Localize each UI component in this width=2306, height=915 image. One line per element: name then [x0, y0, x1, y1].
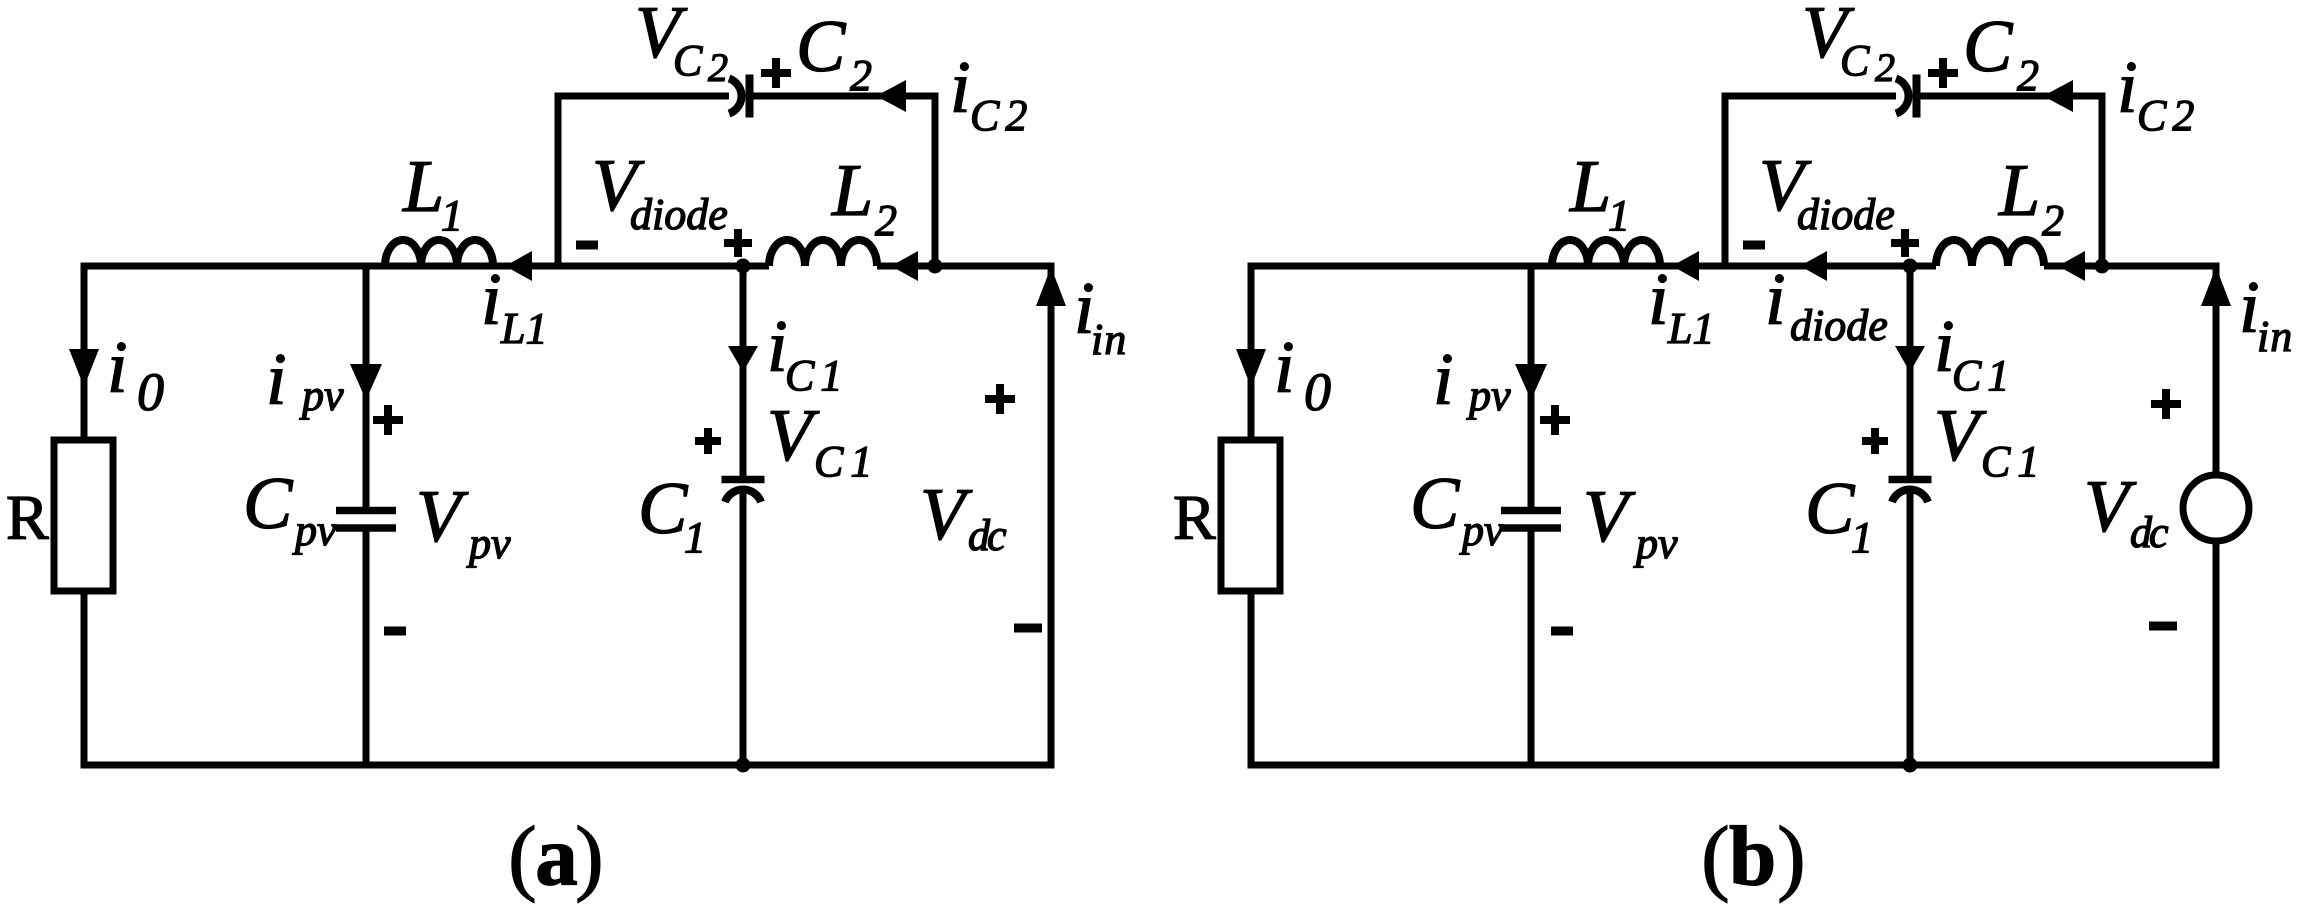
- svg-text:1: 1: [684, 513, 706, 562]
- svg-text:): ): [575, 810, 603, 904]
- arrow i_0 (a): [69, 349, 99, 387]
- svg-text:C: C: [1840, 36, 1870, 85]
- svg-text:C: C: [638, 468, 689, 550]
- svg-text:diode: diode: [1790, 301, 1888, 350]
- svg-text:V: V: [767, 395, 820, 477]
- wire: top-loop left vertical (a): [555, 96, 562, 266]
- svg-text:1: 1: [1608, 191, 1630, 240]
- arrow i_L1 (a): [505, 251, 532, 281]
- junction dot at C1 bottom node (a): [736, 758, 751, 773]
- svg-text:(: (: [508, 810, 536, 904]
- svg-text:dc: dc: [2130, 508, 2169, 557]
- arrow i_C2 (a): [876, 80, 906, 112]
- label plusDiode.b: [1891, 229, 1919, 257]
- junction dot at C1 top node (b): [1903, 259, 1918, 274]
- capacitor C2 straight plate (b): [1913, 75, 1921, 118]
- svg-text:0: 0: [137, 362, 164, 422]
- label plusDc.a: [985, 384, 1015, 414]
- arrow i_in (a): [1036, 267, 1066, 306]
- label plusC1.b: [1862, 428, 1888, 454]
- wire: C1 vertical lower (a): [740, 490, 747, 765]
- svg-text:pv: pv: [1466, 371, 1511, 420]
- svg-text:2: 2: [1875, 45, 1895, 90]
- capacitor Cpv top plate (a): [336, 507, 396, 515]
- arrow i_C1 (b): [1895, 346, 1925, 372]
- svg-text:L: L: [1569, 146, 1611, 228]
- arrow i_pv (a): [350, 364, 382, 400]
- svg-text:2: 2: [875, 196, 897, 245]
- label minusPv.a: [384, 627, 406, 636]
- wire: top wire right segment from C2 (b): [1921, 93, 2106, 100]
- wire: main horizontal middle segment (a): [385, 263, 769, 270]
- wire: Cpv vertical lower (a): [363, 532, 370, 766]
- svg-text:1: 1: [441, 191, 463, 240]
- wire: Cpv vertical upper (b): [1528, 266, 1535, 507]
- label plusC2.b: [1928, 58, 1958, 88]
- wire: left vertical upper (b): [1248, 263, 1255, 444]
- svg-text:pv: pv: [299, 371, 344, 420]
- svg-text:C: C: [673, 36, 703, 85]
- voltage source Vdc circle (b): [2183, 475, 2249, 541]
- arrow into L2 (a): [891, 251, 918, 281]
- arrow i_pv (b): [1515, 364, 1547, 400]
- label plusDiode.a: [724, 229, 752, 257]
- arrow into L2 (b): [2058, 251, 2085, 281]
- svg-text:b: b: [1729, 810, 1776, 904]
- wire: top wire right segment from C2 (a): [754, 93, 939, 100]
- wire: main horizontal right segment (b): [2044, 263, 2220, 270]
- inductor L1 (b): [1552, 240, 1660, 266]
- svg-text:pv: pv: [292, 506, 337, 555]
- svg-text:i: i: [107, 327, 128, 409]
- svg-text:C2: C2: [970, 91, 1033, 140]
- svg-text:2: 2: [708, 45, 728, 90]
- svg-text:C1: C1: [1981, 437, 2046, 486]
- wire: right vertical (a): [1048, 266, 1055, 769]
- wire: left vertical lower (b): [1248, 591, 1255, 769]
- label minusDc.a: [1014, 624, 1042, 633]
- label minusDiode.b: [1743, 241, 1765, 250]
- inductor L2 (a): [769, 240, 877, 266]
- wire: main horizontal right segment (a): [877, 263, 1055, 270]
- svg-text:i: i: [950, 47, 971, 129]
- svg-text:diode: diode: [1797, 190, 1895, 239]
- svg-text:R: R: [1173, 482, 1216, 553]
- label plusPv.b: [1540, 405, 1570, 435]
- svg-text:L: L: [1998, 150, 2040, 232]
- wire: Cpv vertical upper (a): [363, 266, 370, 507]
- wire: bottom horizontal (a): [81, 762, 1055, 769]
- capacitor C2 curved plate (b): [1896, 79, 1909, 114]
- wire: top wire left segment to C2 (b): [1722, 93, 1897, 100]
- svg-text:L: L: [402, 146, 444, 228]
- svg-text:diode: diode: [630, 190, 728, 239]
- label plusPv.a: [373, 405, 403, 435]
- junction dot at C1 top node (a): [736, 259, 751, 274]
- inductor L1 (a): [385, 240, 493, 266]
- junction dot at L2 right node (b): [2095, 259, 2110, 274]
- svg-text:i: i: [1274, 327, 1295, 409]
- label minusDc.b: [2149, 622, 2177, 631]
- svg-text:C2: C2: [2137, 91, 2200, 140]
- label plusC1.a: [695, 428, 721, 454]
- wire: top-loop right vertical (b): [2099, 96, 2106, 266]
- arrow i_diode (b): [1800, 251, 1827, 281]
- svg-text:C1: C1: [814, 437, 879, 486]
- junction dot at C1 bottom node (b): [1903, 758, 1918, 773]
- svg-text:C: C: [1963, 6, 2014, 88]
- svg-text:i: i: [1648, 259, 1669, 341]
- svg-text:C: C: [1410, 463, 1461, 545]
- label minusDiode.a: [576, 241, 598, 250]
- wire: top wire left segment to C2 (a): [555, 93, 730, 100]
- wire: right vertical lower (b): [2213, 541, 2220, 769]
- svg-text:in: in: [1091, 315, 1127, 364]
- wire: left vertical lower (a): [81, 591, 88, 769]
- svg-text:C1: C1: [785, 351, 848, 400]
- svg-text:C: C: [796, 6, 847, 88]
- label plusDc.b: [2151, 389, 2181, 419]
- wire: Cpv vertical lower (b): [1528, 532, 1535, 766]
- inductor L2 (b): [1936, 240, 2044, 266]
- wire: C1 vertical upper (b): [1907, 266, 1914, 476]
- svg-text:V: V: [416, 476, 469, 558]
- resistor R (b): [1221, 440, 1280, 591]
- svg-text:0: 0: [1304, 362, 1331, 422]
- svg-text:C: C: [243, 463, 294, 545]
- svg-text:pv: pv: [1459, 506, 1504, 555]
- arrow i_in (b): [2201, 267, 2231, 306]
- svg-text:pv: pv: [466, 519, 511, 568]
- svg-text:): ): [1777, 810, 1805, 904]
- svg-text:V: V: [1583, 476, 1636, 558]
- wire: C1 vertical upper (a): [740, 266, 747, 476]
- svg-text:L1: L1: [500, 304, 547, 353]
- svg-text:in: in: [2257, 312, 2293, 361]
- wire: bottom horizontal (b): [1248, 762, 2220, 769]
- svg-text:pv: pv: [1633, 519, 1678, 568]
- svg-text:i: i: [2117, 47, 2138, 129]
- capacitor Cpv top plate (b): [1501, 507, 1561, 515]
- wire: right vertical upper (b): [2213, 266, 2220, 475]
- wire: main horizontal left segment (b): [1248, 263, 1553, 270]
- svg-text:i: i: [1433, 339, 1454, 421]
- svg-text:i: i: [266, 339, 287, 421]
- svg-text:i: i: [481, 259, 502, 341]
- wire: main horizontal middle segment (b): [1552, 263, 1936, 270]
- svg-text:2: 2: [850, 51, 872, 100]
- svg-text:V: V: [1934, 395, 1987, 477]
- wire: top-loop right vertical (a): [932, 96, 939, 266]
- arrow i_C2 (b): [2043, 80, 2073, 112]
- wire: top-loop left vertical (b): [1722, 96, 1729, 266]
- capacitor C1 curved plate (a): [725, 489, 761, 502]
- capacitor C1 curved plate (b): [1892, 489, 1928, 502]
- svg-text:a: a: [535, 810, 578, 904]
- junction dot at L2 right node (a): [928, 259, 943, 274]
- svg-text:1: 1: [1851, 513, 1873, 562]
- capacitor C1 straight plate (a): [722, 476, 765, 484]
- svg-text:L: L: [831, 150, 873, 232]
- svg-text:2: 2: [2017, 51, 2039, 100]
- svg-text:dc: dc: [968, 511, 1007, 560]
- capacitor C2 curved plate (a): [729, 79, 742, 114]
- wire: C1 vertical lower (b): [1907, 490, 1914, 765]
- svg-text:V: V: [920, 474, 973, 556]
- arrow i_L1 (b): [1672, 251, 1699, 281]
- arrow i_0 (b): [1236, 349, 1266, 387]
- svg-text:2: 2: [2042, 196, 2064, 245]
- wire: left vertical upper (a): [81, 263, 88, 444]
- capacitor Cpv bottom plate (b): [1501, 524, 1561, 532]
- svg-text:(: (: [1701, 810, 1729, 904]
- svg-text:R: R: [6, 482, 49, 553]
- svg-text:C: C: [1805, 468, 1856, 550]
- label plusC2.a: [761, 58, 791, 88]
- capacitor C1 straight plate (b): [1889, 476, 1932, 484]
- svg-text:L1: L1: [1667, 304, 1714, 353]
- capacitor C2 straight plate (a): [746, 75, 754, 118]
- wire: main horizontal left segment (a): [81, 263, 386, 270]
- resistor R (a): [54, 440, 113, 591]
- svg-text:i: i: [1765, 259, 1786, 341]
- arrow i_C1 (a): [728, 346, 758, 372]
- svg-text:C1: C1: [1952, 351, 2015, 400]
- label minusPv.b: [1551, 627, 1573, 636]
- capacitor Cpv bottom plate (a): [336, 524, 396, 532]
